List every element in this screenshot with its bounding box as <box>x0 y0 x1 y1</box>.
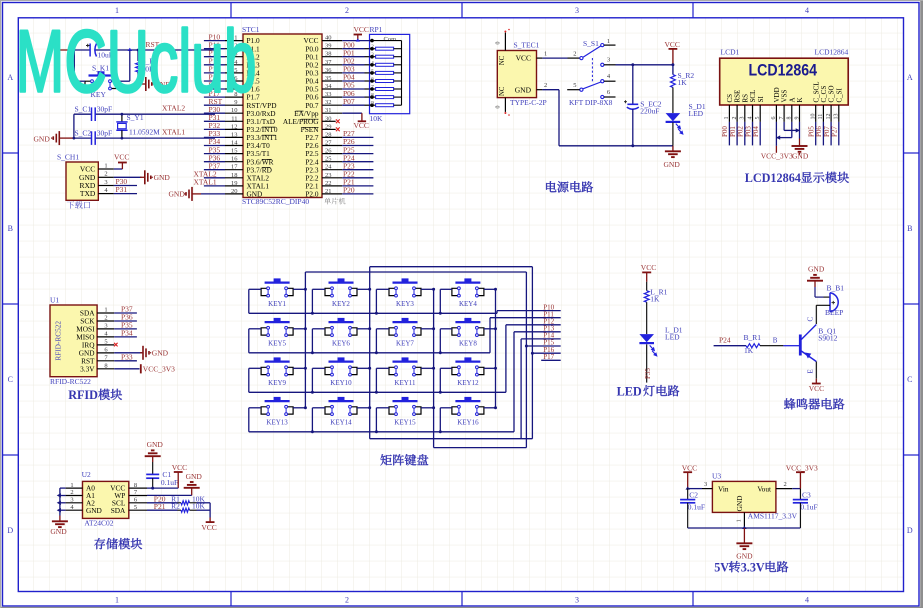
wire + net label P04 <box>759 122 761 145</box>
svg-text:21: 21 <box>325 188 332 195</box>
wire <box>312 328 325 330</box>
wire <box>114 185 137 187</box>
no-connect mark pin29 <box>336 127 340 131</box>
wire row3 rail <box>249 391 506 393</box>
wire column bus 1 <box>304 272 306 408</box>
wire riser P14 <box>520 339 522 439</box>
svg-text:BEEP: BEEP <box>825 308 843 317</box>
svg-text:VCC: VCC <box>354 121 369 130</box>
ground (MCU pin20) <box>191 187 193 201</box>
wire pin20 GND <box>201 193 225 195</box>
svg-text:SDA: SDA <box>111 506 126 515</box>
pin 39 <box>322 48 342 50</box>
junction <box>531 352 534 355</box>
wire <box>815 362 817 379</box>
svg-text:KEY2: KEY2 <box>332 300 350 308</box>
pin 1 GND <box>743 512 745 528</box>
svg-text:C: C <box>8 375 13 384</box>
wire key left drop <box>248 329 250 353</box>
svg-text:P17: P17 <box>543 353 554 361</box>
svg-text:3: 3 <box>607 57 610 64</box>
svg-text:1: 1 <box>724 117 730 120</box>
junction <box>304 367 307 370</box>
wire <box>249 328 261 330</box>
wire <box>646 282 648 291</box>
junction <box>368 367 371 370</box>
svg-text:2: 2 <box>104 315 107 322</box>
svg-text:1: 1 <box>607 38 610 45</box>
wire <box>204 88 225 90</box>
wire <box>114 336 137 338</box>
svg-text:P31: P31 <box>116 185 128 194</box>
junction <box>432 367 435 370</box>
wire <box>672 122 674 145</box>
junction <box>631 63 634 66</box>
wire GND rail <box>542 89 559 91</box>
pin 28 <box>322 136 342 138</box>
wire <box>204 80 225 82</box>
wire key left drop <box>375 408 377 432</box>
pin 33 <box>322 96 342 98</box>
wire <box>376 328 389 330</box>
pin 15 <box>225 153 243 155</box>
wire <box>714 345 746 347</box>
svg-text:10K: 10K <box>192 502 206 511</box>
svg-text:3: 3 <box>575 6 579 15</box>
shield pin bottom <box>504 98 506 112</box>
wire <box>147 502 178 504</box>
pin 38 <box>322 56 342 58</box>
wire key left drop <box>439 289 441 313</box>
wire <box>204 96 225 98</box>
pin 7 <box>225 88 243 90</box>
junction <box>375 430 378 433</box>
wire <box>672 87 674 113</box>
svg-text:4: 4 <box>805 596 809 605</box>
svg-text:0.1uF: 0.1uF <box>688 502 705 511</box>
svg-text:KFT DIP-8X8: KFT DIP-8X8 <box>569 98 613 107</box>
wire GND pin6 <box>114 352 142 354</box>
svg-text:S_S1: S_S1 <box>583 39 599 48</box>
wire key left drop <box>439 368 441 392</box>
wire + net label P01 <box>736 122 738 145</box>
junction <box>304 406 307 409</box>
pin 14 <box>225 145 243 147</box>
wire <box>137 72 139 84</box>
capacitor S_EC2 220uF <box>627 103 638 105</box>
svg-text:K: K <box>796 97 804 102</box>
svg-text:A: A <box>7 73 13 82</box>
svg-text:SI: SI <box>757 96 765 103</box>
pin 2 <box>776 488 792 490</box>
junction <box>375 391 378 394</box>
wire <box>204 145 225 147</box>
power port VCC_3V3 (LCD) <box>775 146 777 153</box>
no-connect mark pin30 <box>336 119 340 123</box>
junction <box>57 493 61 497</box>
svg-text:VCC: VCC <box>682 464 697 473</box>
junction <box>439 312 442 315</box>
wire <box>204 161 225 163</box>
wire <box>440 367 452 369</box>
svg-text:C: C <box>907 375 912 384</box>
junction <box>432 288 435 291</box>
svg-text:TYPE-C-2P: TYPE-C-2P <box>510 98 547 107</box>
wire <box>114 360 137 362</box>
wire <box>204 185 225 187</box>
junction <box>151 487 154 490</box>
junction <box>432 406 435 409</box>
svg-text:8: 8 <box>104 363 107 370</box>
pin 12 <box>225 128 243 130</box>
wire <box>816 304 830 306</box>
svg-text:LCD12864: LCD12864 <box>749 61 818 79</box>
power port VCC (buzzer) <box>815 379 817 384</box>
wire row4 rail <box>249 431 514 433</box>
capacitor S_C2 30pF <box>91 131 93 145</box>
svg-text:GND: GND <box>152 349 169 358</box>
svg-text:C2: C2 <box>689 490 698 499</box>
svg-text:35: 35 <box>325 75 332 82</box>
svg-text:KEY10: KEY10 <box>330 379 352 387</box>
buzzer B_B1 BEEP <box>829 293 831 312</box>
pushbutton KEY8 <box>455 321 480 323</box>
svg-text:B: B <box>907 224 912 233</box>
svg-text:16: 16 <box>231 156 238 163</box>
wire column bus 2 <box>369 267 371 439</box>
svg-text:5: 5 <box>134 504 137 511</box>
svg-text:U3: U3 <box>712 472 721 481</box>
svg-text:31: 31 <box>325 107 332 114</box>
svg-text:GND: GND <box>664 160 681 169</box>
wire keypad bottom link 1 <box>370 438 533 440</box>
svg-text:P2.0: P2.0 <box>305 190 319 199</box>
wire riser P12 <box>505 325 507 393</box>
wire RST net <box>74 49 90 51</box>
pushbutton KEY2 <box>329 282 354 284</box>
svg-text:R2: R2 <box>171 502 180 511</box>
junction <box>311 351 314 354</box>
wire <box>114 193 137 195</box>
svg-text:38: 38 <box>325 51 332 58</box>
wire + net label P11 <box>490 317 561 319</box>
svg-text:1K: 1K <box>678 78 688 87</box>
wire + net label P06 <box>822 122 824 145</box>
junction <box>368 288 371 291</box>
resistor RP1 element 5 <box>376 80 394 83</box>
wire key left drop <box>311 289 313 313</box>
wire + net label P14 <box>521 338 561 340</box>
svg-text:S_Y1: S_Y1 <box>127 113 144 122</box>
svg-text:1K: 1K <box>744 346 754 355</box>
resistor RP1 element 6 <box>376 88 394 91</box>
svg-text:5: 5 <box>755 117 761 120</box>
svg-text:P24: P24 <box>719 336 731 345</box>
wire <box>204 136 225 138</box>
wire WP pin7 <box>147 494 192 496</box>
svg-text:3: 3 <box>104 179 107 186</box>
title matrix keypad <box>380 454 391 465</box>
svg-text:RFID-RC522: RFID-RC522 <box>54 321 63 361</box>
wire key left drop <box>311 329 313 353</box>
svg-text:KEY7: KEY7 <box>396 340 414 348</box>
svg-text:KEY14: KEY14 <box>330 419 352 427</box>
junction <box>439 391 442 394</box>
pushbutton S_K1 KEY <box>89 74 114 76</box>
wire <box>646 302 648 334</box>
svg-text:KEY8: KEY8 <box>459 340 477 348</box>
resistor R1 10K <box>181 501 190 505</box>
pushbutton KEY15 <box>393 400 418 402</box>
svg-text:1: 1 <box>544 51 547 58</box>
svg-text:2: 2 <box>732 117 738 120</box>
label download port title <box>67 201 75 208</box>
pin stubs switch <box>567 89 580 91</box>
svg-text:2: 2 <box>70 489 73 496</box>
junction <box>439 430 442 433</box>
svg-text:3: 3 <box>70 497 73 504</box>
wire P05 net <box>342 88 364 90</box>
wire <box>204 72 225 74</box>
pin 8 <box>370 95 374 99</box>
wire P02 net <box>342 64 364 66</box>
junction <box>356 38 360 41</box>
ground (download) <box>140 176 145 178</box>
svg-text:D: D <box>7 526 13 535</box>
wire + net label P27 <box>838 122 840 145</box>
capacitor C1 0.1uF <box>146 473 159 475</box>
svg-text:GND: GND <box>34 135 51 144</box>
wire <box>760 345 783 347</box>
pin 24 <box>322 169 342 171</box>
svg-text:5V: 5V <box>714 560 729 574</box>
pin 1 <box>98 168 114 170</box>
wire <box>312 407 325 409</box>
power port VCC (download) <box>118 162 127 164</box>
resistor RP1 element 2 <box>376 55 394 58</box>
svg-text:1: 1 <box>104 307 107 314</box>
junction <box>368 406 371 409</box>
svg-text:2: 2 <box>345 596 349 605</box>
wire P21 net <box>342 185 373 187</box>
svg-text:0: 0 <box>496 106 502 109</box>
wire <box>249 407 261 409</box>
svg-text:VCC: VCC <box>809 384 824 393</box>
svg-text:MCUclub: MCUclub <box>16 12 257 111</box>
pin 40 <box>322 40 342 42</box>
pushbutton KEY4 <box>455 282 480 284</box>
wire P03 net <box>342 72 364 74</box>
pin 4 <box>225 64 243 66</box>
frame section ticks <box>230 3 232 18</box>
svg-text:KEY13: KEY13 <box>266 419 288 427</box>
pushbutton KEY7 <box>393 321 418 323</box>
svg-text:8: 8 <box>787 117 793 120</box>
resistor RP1 element 7 <box>376 96 394 99</box>
wire <box>204 104 225 106</box>
wire key left drop <box>375 329 377 353</box>
pin 21 <box>322 193 342 195</box>
svg-text:B_R1: B_R1 <box>744 333 762 342</box>
svg-text:3.3V: 3.3V <box>80 364 95 373</box>
wire VCC net <box>604 64 616 66</box>
pin 2 <box>98 176 114 178</box>
power port VCC (reset) <box>57 46 59 53</box>
junction <box>742 526 746 529</box>
wire <box>440 407 452 409</box>
wire <box>672 65 674 75</box>
pin 10 <box>225 112 243 114</box>
svg-text:B_B1: B_B1 <box>827 284 845 293</box>
wire + net label P12 <box>506 324 561 326</box>
junction <box>776 135 780 139</box>
svg-text:GND: GND <box>186 472 203 481</box>
svg-text:15: 15 <box>231 148 238 155</box>
svg-text:25: 25 <box>325 156 332 163</box>
wire P00 net <box>342 48 364 50</box>
svg-text:18: 18 <box>231 172 238 179</box>
wire <box>60 487 66 489</box>
wire <box>249 288 261 290</box>
svg-text:LED: LED <box>665 332 680 341</box>
wire + net label P05 <box>815 122 817 145</box>
wire P07 net <box>342 104 364 106</box>
pin 5 <box>225 72 243 74</box>
svg-text:VCC: VCC <box>665 40 680 49</box>
svg-text:GND: GND <box>50 527 67 536</box>
svg-text:S_C2: S_C2 <box>75 129 92 138</box>
svg-text:E: E <box>806 369 814 373</box>
pin 2 <box>225 48 243 50</box>
wire <box>376 367 389 369</box>
wire <box>814 287 816 297</box>
svg-text:26: 26 <box>325 148 332 155</box>
pin 6 <box>370 79 374 83</box>
wire P23 net <box>342 169 373 171</box>
svg-text:33: 33 <box>325 91 332 98</box>
svg-text:10K: 10K <box>370 114 384 123</box>
junction <box>368 327 371 330</box>
svg-text:LCD1: LCD1 <box>721 48 740 57</box>
pin 30 <box>322 120 336 122</box>
svg-text:2: 2 <box>544 82 547 89</box>
pushbutton KEY10 <box>329 361 354 363</box>
svg-text:NC: NC <box>499 55 506 65</box>
wire row1 rail <box>249 312 497 314</box>
wire P22 net <box>342 177 373 179</box>
svg-text:KEY3: KEY3 <box>396 300 414 308</box>
svg-text:14: 14 <box>231 140 238 147</box>
svg-text:3: 3 <box>740 117 746 120</box>
pin 16 <box>225 161 243 163</box>
svg-text:2: 2 <box>104 171 107 178</box>
pin 37 <box>322 64 342 66</box>
wire <box>688 488 702 490</box>
wire <box>204 128 225 130</box>
wire key left drop <box>439 408 441 432</box>
wire key left drop <box>375 368 377 392</box>
pushbutton KEY13 <box>265 400 290 402</box>
svg-text:24: 24 <box>325 164 332 171</box>
pin 1 common <box>370 39 374 43</box>
wire <box>114 176 142 178</box>
pin 9 <box>225 104 243 106</box>
svg-text:Com: Com <box>384 36 397 43</box>
LED L_D1 <box>639 334 654 342</box>
svg-text:B: B <box>773 337 778 345</box>
svg-text:4: 4 <box>805 6 809 15</box>
pin 9 <box>370 103 374 107</box>
wire <box>147 509 178 511</box>
junction <box>631 144 634 147</box>
svg-text:19: 19 <box>231 180 238 187</box>
svg-text:GND: GND <box>169 190 186 199</box>
wire <box>204 120 225 122</box>
junction <box>304 327 307 330</box>
ground (reset) <box>145 77 147 91</box>
svg-text:Vout: Vout <box>757 484 771 493</box>
ground (regulator) <box>743 528 745 543</box>
wire + net label P16 <box>532 352 560 354</box>
svg-text:XTAL1: XTAL1 <box>162 128 185 137</box>
svg-text:VCC: VCC <box>114 153 129 162</box>
svg-text:1: 1 <box>115 596 119 605</box>
wire + net label P00 <box>728 122 730 145</box>
svg-text:28: 28 <box>325 131 332 138</box>
svg-text:P21: P21 <box>154 502 166 511</box>
svg-text:VCC: VCC <box>516 54 531 63</box>
svg-text:U1: U1 <box>50 296 59 305</box>
LED S_D1 <box>666 113 681 121</box>
wire XTAL2 net <box>74 113 92 115</box>
wire <box>204 48 225 50</box>
svg-text:GND: GND <box>808 264 825 273</box>
svg-text:22: 22 <box>325 180 332 187</box>
pin 3 <box>98 185 114 187</box>
wire <box>312 367 325 369</box>
wire XTAL1 net <box>74 137 92 139</box>
svg-text:KEY9: KEY9 <box>268 379 286 387</box>
svg-text:KEY6: KEY6 <box>332 340 350 348</box>
wire storage left bus <box>59 488 61 515</box>
svg-text:11: 11 <box>818 114 824 120</box>
svg-text:11.0592M: 11.0592M <box>129 128 160 137</box>
svg-text:29: 29 <box>325 123 332 130</box>
wire <box>646 344 648 382</box>
pin 4 <box>98 193 114 195</box>
wire <box>376 407 389 409</box>
wire <box>204 56 225 58</box>
wire + net label P15 <box>526 345 560 347</box>
svg-text:LCD12864: LCD12864 <box>815 48 849 57</box>
junction <box>311 430 314 433</box>
pushbutton KEY11 <box>393 361 418 363</box>
svg-text:8: 8 <box>134 482 137 489</box>
wire P20 net <box>342 193 373 195</box>
svg-text:27: 27 <box>325 140 332 147</box>
resistor R2 10K <box>181 508 190 512</box>
svg-text:12: 12 <box>231 123 238 130</box>
wire + net label P02 <box>744 122 746 145</box>
wire pin40 VCC <box>342 40 369 42</box>
svg-text:GND: GND <box>147 440 164 449</box>
svg-text:39: 39 <box>325 43 332 50</box>
svg-text:P20: P20 <box>343 186 355 195</box>
pin 1 <box>225 40 243 42</box>
wire <box>204 177 225 179</box>
power port VCC (EA pin) <box>361 113 363 121</box>
svg-text:2: 2 <box>345 6 349 15</box>
